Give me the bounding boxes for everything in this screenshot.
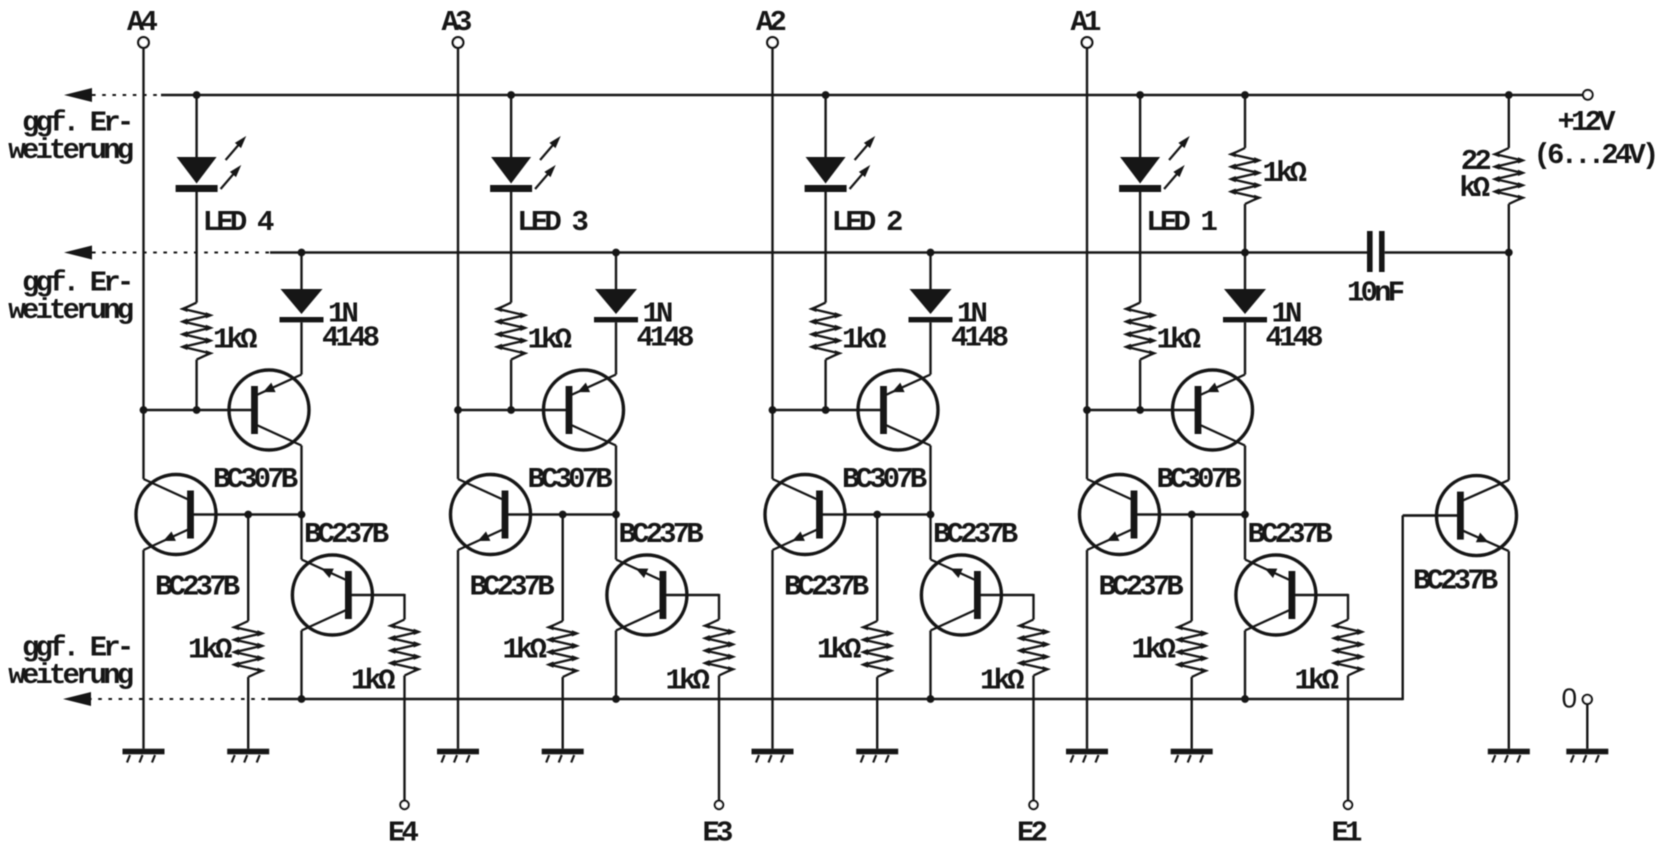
- transistor T1b BC237B (NPN left): [1080, 475, 1160, 555]
- svg-text:LED 1: LED 1: [1146, 206, 1217, 239]
- resistor 1k to ground (col 3): [546, 621, 580, 677]
- label A1: [1071, 6, 1102, 39]
- label LED 2: [832, 206, 902, 239]
- label BC237B (col 3 input): [619, 518, 704, 551]
- wire LED2 cathode to R: [824, 192, 826, 303]
- wire base rail of BC307B (col 4): [144, 409, 256, 411]
- svg-text:E4: E4: [388, 817, 419, 850]
- svg-text:BC237B: BC237B: [1099, 571, 1184, 604]
- ground (col 4 mid): [227, 749, 269, 763]
- resistor 1k (LED2 series): [808, 303, 842, 360]
- wire D1 cathode to T1a emitter: [1244, 322, 1246, 374]
- svg-text:BC237B: BC237B: [155, 571, 240, 604]
- wire mid to R-gnd (col 4): [247, 515, 249, 622]
- label 4148 (col 2): [951, 322, 1008, 355]
- wire cap node to T13 collector: [1508, 253, 1510, 481]
- wire T4c collector down to bottom bus: [300, 631, 302, 700]
- svg-text:BC237B: BC237B: [619, 518, 704, 551]
- wire 22k to cap node: [1508, 204, 1510, 253]
- node cap-22k junction: [1505, 249, 1513, 257]
- terminal E2: [1029, 801, 1037, 809]
- node mid-collector junction (col 2): [927, 511, 935, 519]
- label 1kOhm gnd (col 3): [503, 634, 547, 667]
- node bottom-bus junction (col 3): [612, 695, 620, 703]
- terminal E3: [715, 801, 723, 809]
- wire D2 anode: [929, 253, 931, 291]
- wire +12V top bus: [161, 94, 1583, 96]
- label 4148 (col 3): [637, 322, 694, 355]
- resistor 1k pull (col 1): [1228, 148, 1262, 204]
- resistor 22k: [1492, 148, 1526, 204]
- svg-text:BC237B: BC237B: [933, 518, 1018, 551]
- svg-text:BC237B: BC237B: [470, 571, 555, 604]
- svg-text:kΩ: kΩ: [1459, 172, 1490, 205]
- svg-text:4148: 4148: [1266, 322, 1323, 355]
- wire A2 column: [771, 48, 773, 410]
- wire D1 anode: [1244, 253, 1246, 291]
- terminal A3: [453, 37, 464, 48]
- svg-text:E3: E3: [703, 817, 733, 850]
- wire A1 column: [1086, 48, 1088, 410]
- LED LED3: [490, 136, 561, 192]
- terminal A2: [767, 37, 778, 48]
- LED LED1: [1119, 136, 1190, 192]
- resistor 1k to ground (col 2): [860, 621, 894, 677]
- node LED1 top bus junction: [1136, 91, 1144, 99]
- svg-text:10nF: 10nF: [1347, 277, 1404, 310]
- label LED 1: [1146, 206, 1217, 239]
- label 1kOhm (LED4 series): [213, 324, 257, 357]
- LED LED2: [805, 136, 876, 192]
- terminal A1: [1082, 37, 1093, 48]
- svg-text:A1: A1: [1071, 6, 1102, 39]
- svg-text:1kΩ: 1kΩ: [188, 634, 232, 667]
- label 1kOhm input (col 3): [666, 665, 710, 698]
- wire middle bus (diode rail): [270, 251, 1367, 253]
- svg-text:4148: 4148: [322, 322, 379, 355]
- node diode D1 bus junction: [1241, 249, 1249, 257]
- wire mid rail (col 2): [819, 513, 931, 515]
- wire LED4 anode: [195, 95, 197, 158]
- wire T3a collector down: [615, 446, 617, 515]
- resistor 1k input E1: [1331, 620, 1365, 676]
- svg-text:BC237B: BC237B: [1248, 518, 1333, 551]
- node A4-base junction: [140, 406, 148, 414]
- wire base rail of BC307B (col 1): [1087, 409, 1199, 411]
- label E1: [1332, 817, 1363, 850]
- label 10nF: [1347, 277, 1404, 310]
- transistor T13 BC237B (NPN right): [1403, 476, 1517, 556]
- node R-base junction (col 3): [507, 406, 515, 414]
- node R-base junction (col 2): [822, 406, 830, 414]
- label 1kOhm (LED2 series): [842, 324, 886, 357]
- wire mid rail (col 3): [504, 513, 616, 515]
- wire T1a collector down: [1244, 446, 1246, 515]
- label 1kOhm gnd (col 2): [817, 634, 861, 667]
- svg-text:1kΩ: 1kΩ: [213, 324, 257, 357]
- resistor 1k (LED4 series): [179, 303, 213, 360]
- ground (col 3 mid): [542, 749, 584, 763]
- transistor T4a BC307B (PNP): [229, 370, 309, 450]
- label ggf. Erweiterung (top): [8, 106, 132, 167]
- label 1kOhm input (col 2): [980, 665, 1024, 698]
- wire T1b collector up: [1086, 410, 1088, 479]
- label BC307B (col 4): [213, 463, 298, 496]
- wire T1b emitter to ground: [1086, 550, 1088, 749]
- label BC237B (col 2 left): [784, 571, 869, 604]
- node A2-base junction: [769, 406, 777, 414]
- svg-text:1kΩ: 1kΩ: [842, 324, 886, 357]
- label BC237B (right): [1413, 565, 1498, 598]
- wire R-gnd down (col 3): [562, 677, 564, 749]
- wire T3c collector down to bottom bus: [615, 631, 617, 700]
- wire R to base-wire (col 4): [195, 360, 197, 410]
- svg-text:1kΩ: 1kΩ: [817, 634, 861, 667]
- node mid-R junction (col 2): [873, 511, 881, 519]
- svg-text:A4: A4: [127, 6, 158, 39]
- svg-text:BC307B: BC307B: [528, 463, 613, 496]
- capacitor C1 10nF: [1367, 231, 1509, 272]
- wire T4a collector down: [300, 446, 302, 515]
- wire T13 emitter to ground: [1508, 551, 1510, 749]
- svg-text:1kΩ: 1kΩ: [528, 324, 572, 357]
- label BC237B (col 1 left): [1099, 571, 1184, 604]
- wire mid to R-gnd (col 3): [562, 515, 564, 622]
- ground (col 2 left): [752, 749, 794, 763]
- svg-text:1kΩ: 1kΩ: [980, 665, 1024, 698]
- wire base-to-RE corner (col 2): [1032, 594, 1034, 620]
- svg-text:1kΩ: 1kΩ: [1263, 157, 1307, 190]
- wire R-gnd down (col 1): [1190, 677, 1192, 749]
- svg-text:1kΩ: 1kΩ: [1132, 634, 1176, 667]
- label BC237B (col 3 left): [470, 571, 555, 604]
- label 1N (col 1): [1272, 298, 1302, 331]
- transistor T3c BC237B (NPN input): [607, 555, 719, 635]
- svg-text:weiterung: weiterung: [8, 134, 132, 167]
- wire base rail of BC307B (col 2): [773, 409, 885, 411]
- transistor T1a BC307B (PNP): [1173, 370, 1253, 450]
- wire D2 cathode to T2a emitter: [929, 322, 931, 374]
- svg-text:4148: 4148: [951, 322, 1008, 355]
- label 1kOhm (LED3 series): [528, 324, 572, 357]
- label 1N (col 2): [957, 298, 987, 331]
- wire A3 column: [457, 48, 459, 410]
- wire top bus to pull resistor (col 1): [1244, 95, 1246, 148]
- wire RE to terminal E3: [718, 676, 720, 801]
- svg-text:0: 0: [1562, 683, 1578, 714]
- label BC307B (col 2): [842, 463, 927, 496]
- wire LED3 cathode to R: [510, 192, 512, 303]
- label BC307B (col 3): [528, 463, 613, 496]
- terminal E1: [1344, 801, 1352, 809]
- wire base rail of BC307B (col 3): [458, 409, 570, 411]
- wire T1c emitter up to mid node: [1244, 515, 1246, 560]
- ground (col 1 mid): [1171, 749, 1213, 763]
- label E3: [703, 817, 733, 850]
- diode D4 1N4148: [280, 289, 324, 322]
- label E2: [1017, 817, 1047, 850]
- node 22k top bus junction: [1505, 91, 1513, 99]
- transistor T4c BC237B (NPN input): [292, 555, 404, 635]
- wire mid to R-gnd (col 1): [1190, 515, 1192, 622]
- svg-text:weiterung: weiterung: [8, 659, 132, 692]
- diode D3 1N4148: [594, 289, 638, 322]
- resistor 1k (LED3 series): [494, 303, 528, 360]
- node R-base junction (col 1): [1136, 406, 1144, 414]
- svg-text:LED 3: LED 3: [517, 206, 587, 239]
- label 1kOhm input (col 4): [351, 665, 395, 698]
- wire T3b emitter to ground: [457, 550, 459, 749]
- label LED 4: [203, 206, 274, 239]
- node mid-collector junction (col 1): [1241, 511, 1249, 519]
- svg-text:1kΩ: 1kΩ: [1157, 324, 1201, 357]
- label BC237B (col 2 input): [933, 518, 1018, 551]
- net Erweiterung-1 arrow (top bus left): [64, 88, 161, 102]
- wire RE to terminal E4: [403, 676, 405, 801]
- transistor T2b BC237B (NPN left): [765, 475, 845, 555]
- svg-text:BC307B: BC307B: [842, 463, 927, 496]
- transistor T3b BC237B (NPN left): [451, 475, 531, 555]
- wire T1c collector down to bottom bus: [1244, 631, 1246, 700]
- label 22 (22k value): [1461, 145, 1491, 178]
- svg-text:weiterung: weiterung: [8, 294, 132, 327]
- node mid-R junction (col 3): [559, 511, 567, 519]
- wire T2c collector down to bottom bus: [929, 631, 931, 700]
- wire D4 anode: [300, 253, 302, 291]
- svg-text:BC237B: BC237B: [304, 518, 389, 551]
- wire RE to terminal E1: [1347, 676, 1349, 801]
- wire R-gnd down (col 2): [876, 677, 878, 749]
- wire T2b collector up: [771, 410, 773, 479]
- node bottom-bus junction (col 2): [927, 695, 935, 703]
- node LED2 top bus junction: [822, 91, 830, 99]
- wire T2c emitter up to mid node: [929, 515, 931, 560]
- ground (col 1 left): [1066, 749, 1108, 763]
- label A3: [442, 6, 472, 39]
- svg-text:BC237B: BC237B: [1413, 565, 1498, 598]
- node bottom-bus junction (col 4): [298, 695, 306, 703]
- node R-top bus junction (col 1 pull resistor): [1241, 91, 1249, 99]
- wire T4c emitter up to mid node: [300, 515, 302, 560]
- net Erweiterung-3 arrow (bottom bus left): [63, 692, 268, 706]
- node diode D4 bus junction: [298, 249, 306, 257]
- node R-base junction (col 4): [193, 406, 201, 414]
- ground (T13 emitter): [1488, 749, 1530, 763]
- node A1-base junction: [1083, 406, 1091, 414]
- terminal 0V: [1583, 695, 1592, 704]
- wire A4 column: [142, 48, 144, 410]
- svg-text:A2: A2: [756, 6, 786, 39]
- wire R to base-wire (col 2): [824, 360, 826, 410]
- ground (0V terminal): [1566, 749, 1608, 763]
- label BC237B (col 4 input): [304, 518, 389, 551]
- node A3-base junction: [454, 406, 462, 414]
- svg-text:E2: E2: [1017, 817, 1047, 850]
- label kOhm (22k unit): [1459, 172, 1490, 205]
- label 4148 (col 1): [1266, 322, 1323, 355]
- label A4: [127, 6, 158, 39]
- svg-text:E1: E1: [1332, 817, 1363, 850]
- svg-text:1kΩ: 1kΩ: [666, 665, 710, 698]
- terminal A4: [138, 37, 149, 48]
- label 4148 (col 4): [322, 322, 379, 355]
- label (6...24V): [1534, 139, 1656, 172]
- label BC237B (col 4 left): [155, 571, 240, 604]
- label 1N (col 4): [328, 298, 358, 331]
- node mid-collector junction (col 4): [298, 511, 306, 519]
- wire T2b emitter to ground: [771, 550, 773, 749]
- svg-text:A3: A3: [442, 6, 472, 39]
- wire T2a collector down: [929, 446, 931, 515]
- terminal E4: [400, 801, 408, 809]
- label ggf. Erweiterung (bottom): [8, 631, 132, 692]
- wire LED1 anode: [1139, 95, 1141, 158]
- wire LED4 cathode to R: [195, 192, 197, 303]
- node mid-R junction (col 4): [244, 511, 252, 519]
- label 1N (col 3): [643, 298, 673, 331]
- resistor 1k input E3: [702, 620, 736, 676]
- label 0 (zero-volt terminal): [1562, 683, 1578, 714]
- wire mid to R-gnd (col 2): [876, 515, 878, 622]
- transistor T4b BC237B (NPN left): [136, 475, 216, 555]
- wire T3c emitter up to mid node: [615, 515, 617, 560]
- diode D2 1N4148: [909, 289, 953, 322]
- node diode D2 bus junction: [927, 249, 935, 257]
- wire LED3 anode: [510, 95, 512, 158]
- resistor 1k input E4: [387, 620, 421, 676]
- label A2: [756, 6, 786, 39]
- svg-text:BC237B: BC237B: [784, 571, 869, 604]
- net Erweiterung-2 arrow (middle bus left): [64, 246, 270, 260]
- ground (col 2 mid): [856, 749, 898, 763]
- wire top bus to 22k: [1508, 95, 1510, 148]
- label BC307B (col 1): [1157, 463, 1242, 496]
- node LED3 top bus junction: [507, 91, 515, 99]
- label BC237B (col 1 input): [1248, 518, 1333, 551]
- label LED 3: [517, 206, 587, 239]
- wire D4 cathode to T4a emitter: [300, 322, 302, 374]
- wire bottom bus (to T13 base): [268, 515, 1462, 700]
- LED LED4: [176, 136, 247, 192]
- wire LED1 cathode to R: [1139, 192, 1141, 303]
- wire base-to-RE corner (col 1): [1347, 594, 1349, 620]
- label 1kOhm input (col 1): [1295, 665, 1339, 698]
- wire T3b collector up: [457, 410, 459, 479]
- diode D1 1N4148: [1223, 289, 1267, 322]
- wire D3 anode: [615, 253, 617, 291]
- label 1kOhm gnd (col 1): [1132, 634, 1176, 667]
- node LED4 top bus junction: [193, 91, 201, 99]
- wire base-to-RE corner (col 3): [718, 594, 720, 620]
- wire T4b emitter to ground: [142, 550, 144, 749]
- svg-text:1kΩ: 1kΩ: [503, 634, 547, 667]
- svg-text:LED 4: LED 4: [203, 206, 274, 239]
- label 1kOhm (LED1 series): [1157, 324, 1201, 357]
- transistor T3a BC307B (PNP): [544, 370, 624, 450]
- transistor T2a BC307B (PNP): [858, 370, 938, 450]
- node mid-collector junction (col 3): [612, 511, 620, 519]
- wire R-gnd down (col 4): [247, 677, 249, 749]
- svg-text:1kΩ: 1kΩ: [1295, 665, 1339, 698]
- wire pull resistor to middle bus (col 1): [1244, 204, 1246, 253]
- svg-text:4148: 4148: [637, 322, 694, 355]
- svg-text:+12V: +12V: [1558, 106, 1617, 139]
- wire base-to-RE corner (col 4): [403, 594, 405, 620]
- transistor T1c BC237B (NPN input): [1236, 555, 1348, 635]
- label 1kOhm pull (col 1): [1263, 157, 1307, 190]
- svg-text:(6...24V): (6...24V): [1534, 139, 1656, 172]
- label E4: [388, 817, 419, 850]
- terminal +12V: [1583, 90, 1593, 100]
- node mid-R junction (col 1): [1188, 511, 1196, 519]
- wire mid rail (col 1): [1133, 513, 1245, 515]
- transistor T2c BC237B (NPN input): [921, 555, 1033, 635]
- wire mid rail (col 4): [190, 513, 302, 515]
- wire LED2 anode: [824, 95, 826, 158]
- node diode D3 bus junction: [612, 249, 620, 257]
- wire D3 cathode to T3a emitter: [615, 322, 617, 374]
- label +12V: [1558, 106, 1617, 139]
- svg-text:LED 2: LED 2: [832, 206, 902, 239]
- wire RE to terminal E2: [1032, 676, 1034, 801]
- label 1kOhm gnd (col 4): [188, 634, 232, 667]
- svg-text:1kΩ: 1kΩ: [351, 665, 395, 698]
- resistor 1k to ground (col 1): [1175, 621, 1209, 677]
- ground (col 4 left): [123, 749, 165, 763]
- node bottom-bus junction (col 1): [1241, 695, 1249, 703]
- resistor 1k input E2: [1016, 620, 1050, 676]
- resistor 1k to ground (col 4): [231, 621, 265, 677]
- svg-text:BC307B: BC307B: [1157, 463, 1242, 496]
- ground (col 3 left): [437, 749, 479, 763]
- label ggf. Erweiterung (middle): [8, 266, 132, 327]
- svg-text:BC307B: BC307B: [213, 463, 298, 496]
- wire R to base-wire (col 1): [1139, 360, 1141, 410]
- wire R to base-wire (col 3): [510, 360, 512, 410]
- wire T4b collector up: [142, 410, 144, 479]
- resistor 1k (LED1 series): [1123, 303, 1157, 360]
- wire 0V terminal to ground: [1586, 704, 1588, 749]
